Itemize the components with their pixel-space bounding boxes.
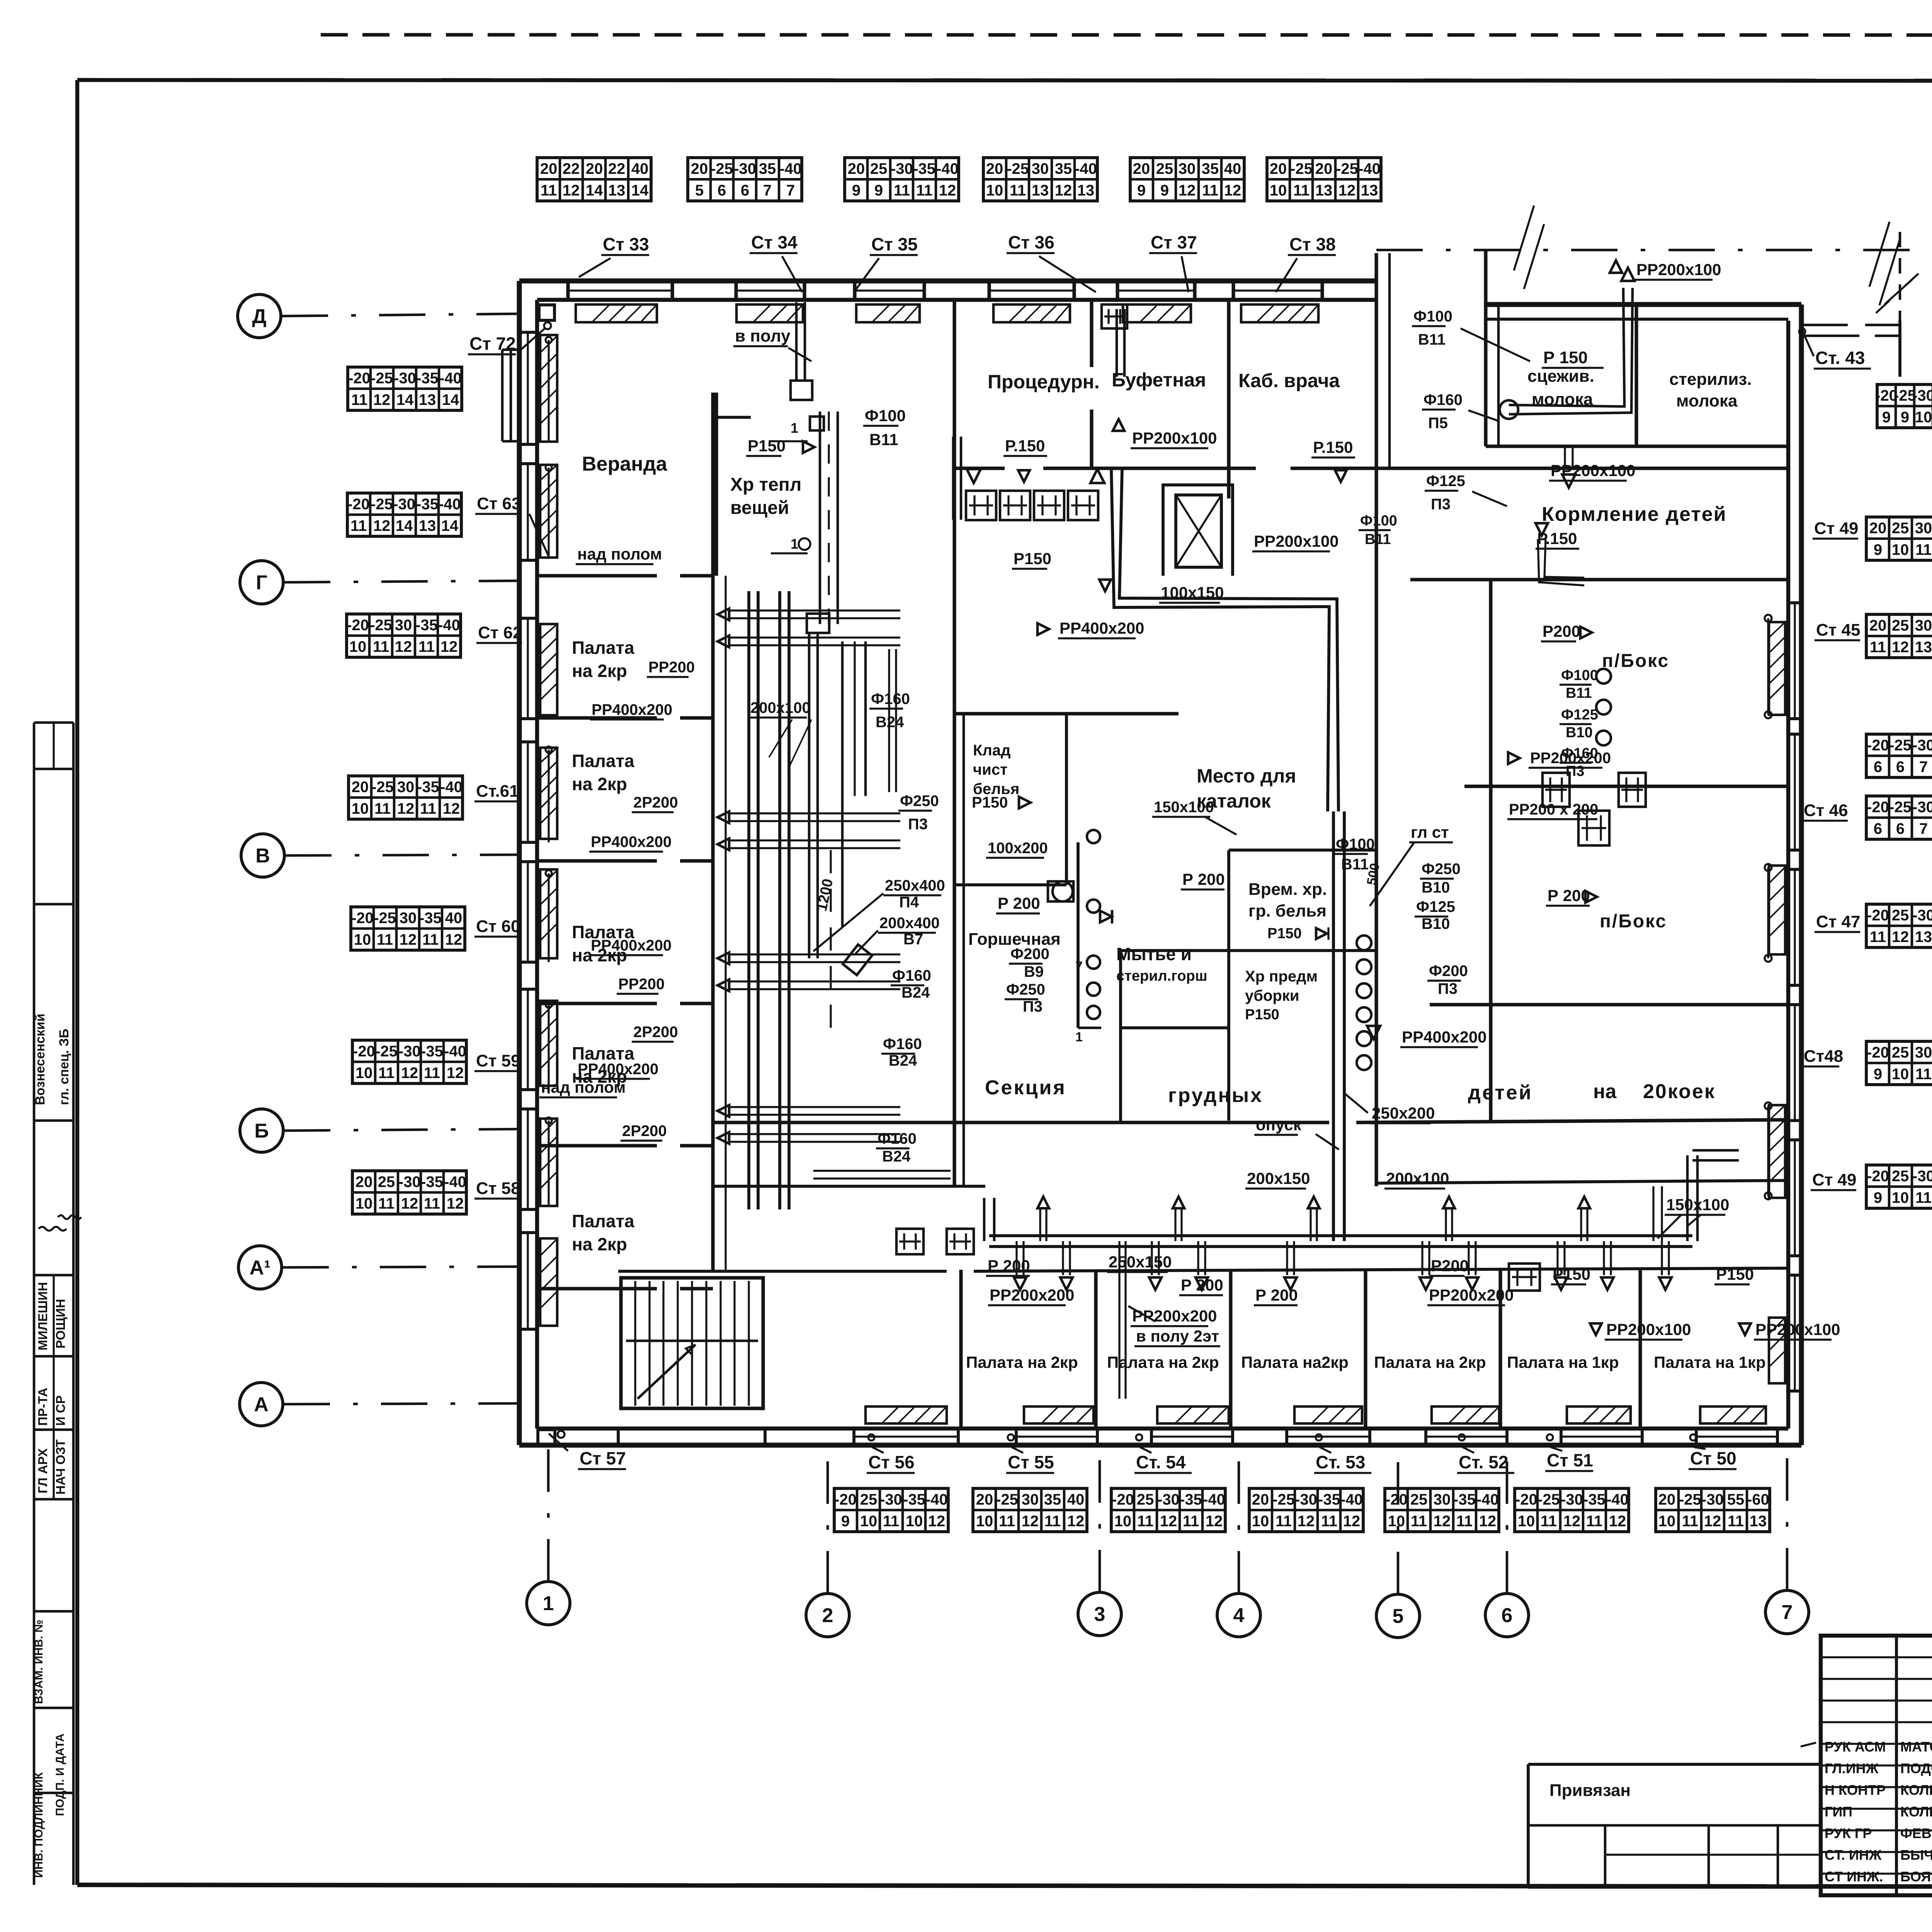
- svg-text:гл. спец. ЗБ: гл. спец. ЗБ: [57, 1029, 71, 1105]
- svg-text:Р150: Р150: [1014, 549, 1051, 568]
- svg-text:Р 200: Р 200: [1182, 870, 1225, 888]
- svg-text:Кормление детей: Кормление детей: [1542, 503, 1727, 526]
- svg-text:Палата на 1кр: Палата на 1кр: [1507, 1353, 1619, 1371]
- svg-text:-40: -40: [1340, 1491, 1363, 1508]
- svg-text:-30: -30: [1912, 907, 1932, 924]
- wing walls: [1486, 302, 1801, 307]
- svg-text:25: 25: [1156, 160, 1173, 177]
- svg-text:Р150: Р150: [972, 794, 1008, 811]
- svg-text:12: 12: [1179, 182, 1196, 199]
- svg-text:-30: -30: [1912, 387, 1932, 404]
- svg-text:9: 9: [841, 1513, 850, 1530]
- svg-text:В24: В24: [882, 1148, 911, 1165]
- svg-text:-25: -25: [1889, 737, 1912, 754]
- svg-text:14: 14: [396, 517, 413, 534]
- svg-text:В24: В24: [876, 714, 904, 731]
- svg-text:-35: -35: [416, 370, 439, 387]
- svg-text:40: 40: [445, 910, 463, 927]
- svg-text:1: 1: [1075, 1030, 1083, 1044]
- svg-text:11: 11: [378, 1195, 395, 1212]
- svg-text:Привязан: Привязан: [1549, 1781, 1631, 1800]
- svg-text:25: 25: [1892, 520, 1909, 537]
- svg-text:-25: -25: [1336, 160, 1358, 177]
- svg-text:Ст 45: Ст 45: [1816, 621, 1861, 639]
- svg-text:ГЛ.ИНЖ: ГЛ.ИНЖ: [1825, 1760, 1879, 1776]
- svg-text:30: 30: [1915, 520, 1932, 537]
- svg-text:10: 10: [1892, 1066, 1909, 1083]
- в полу duct stub: [795, 302, 798, 381]
- svg-text:11: 11: [1137, 1513, 1153, 1530]
- svg-text:-35: -35: [421, 1173, 443, 1190]
- axis 7: [1765, 1590, 1809, 1634]
- svg-text:-30: -30: [394, 370, 416, 387]
- svg-text:13: 13: [419, 517, 436, 534]
- svg-text:25: 25: [860, 1491, 878, 1508]
- svg-text:Палата: Палата: [572, 638, 634, 658]
- svg-text:12: 12: [443, 800, 460, 817]
- svg-text:11: 11: [1044, 1513, 1061, 1530]
- svg-text:-30: -30: [1912, 1168, 1932, 1185]
- svg-text:12: 12: [1892, 639, 1909, 656]
- svg-text:20: 20: [355, 1173, 373, 1190]
- svg-text:30: 30: [1915, 617, 1932, 634]
- svg-text:11: 11: [1586, 1513, 1602, 1530]
- svg-text:10: 10: [355, 1195, 373, 1212]
- svg-text:1: 1: [543, 1592, 554, 1615]
- duct вертикаль процедурная: [952, 437, 955, 520]
- svg-text:Ст 50: Ст 50: [1690, 1448, 1736, 1468]
- svg-text:10: 10: [1658, 1513, 1676, 1530]
- svg-text:Ф160: Ф160: [878, 1130, 917, 1147]
- svg-text:11: 11: [1682, 1513, 1698, 1530]
- svg-text:12: 12: [1479, 1513, 1497, 1530]
- corridor wall left column: [711, 393, 714, 1271]
- svg-text:11: 11: [418, 638, 435, 655]
- svg-text:-20: -20: [1867, 799, 1889, 816]
- svg-text:14: 14: [441, 517, 459, 534]
- svg-text:-40: -40: [1203, 1491, 1225, 1508]
- svg-text:В24: В24: [889, 1052, 917, 1069]
- svg-text:-40: -40: [439, 370, 462, 387]
- svg-text:ГЛ АРХ: ГЛ АРХ: [36, 1448, 50, 1493]
- svg-text:12: 12: [1704, 1513, 1721, 1530]
- svg-text:-35: -35: [903, 1491, 925, 1508]
- svg-text:20: 20: [1869, 617, 1887, 634]
- svg-text:12: 12: [397, 800, 415, 817]
- svg-text:6: 6: [1874, 759, 1882, 776]
- svg-text:12: 12: [445, 931, 463, 948]
- svg-text:250х150: 250х150: [1109, 1253, 1172, 1271]
- svg-text:12: 12: [395, 638, 412, 655]
- svg-text:Ф160: Ф160: [1423, 391, 1463, 408]
- svg-text:-20: -20: [1867, 1168, 1889, 1185]
- svg-text:9: 9: [1874, 1066, 1882, 1083]
- svg-text:-20: -20: [834, 1491, 857, 1508]
- svg-text:35: 35: [1044, 1491, 1061, 1508]
- svg-text:11: 11: [1728, 1513, 1744, 1530]
- svg-text:чист: чист: [973, 761, 1008, 778]
- svg-text:-30: -30: [1912, 737, 1932, 754]
- wing duct: [1509, 288, 1624, 406]
- svg-text:Ст 58: Ст 58: [476, 1179, 520, 1198]
- svg-text:20: 20: [976, 1491, 993, 1508]
- svg-text:А: А: [254, 1393, 269, 1416]
- svg-text:12: 12: [401, 1065, 418, 1082]
- svg-text:30: 30: [1915, 1044, 1932, 1061]
- svg-text:Р150: Р150: [1716, 1265, 1754, 1283]
- svg-text:Ф100: Ф100: [865, 406, 906, 425]
- svg-text:12: 12: [1563, 1513, 1581, 1530]
- svg-text:в полу 2эт: в полу 2эт: [1136, 1327, 1219, 1345]
- svg-text:-35: -35: [1180, 1491, 1202, 1508]
- svg-text:В11: В11: [1365, 531, 1391, 548]
- svg-text:Ф100: Ф100: [1413, 308, 1452, 325]
- svg-text:на 2кр: на 2кр: [572, 661, 627, 681]
- svg-text:20: 20: [986, 160, 1003, 177]
- svg-text:-30: -30: [398, 1173, 421, 1190]
- svg-text:9: 9: [1137, 182, 1146, 199]
- svg-text:Р.150: Р.150: [1537, 529, 1577, 548]
- svg-text:-40: -40: [438, 617, 460, 634]
- svg-text:грудных: грудных: [1168, 1084, 1263, 1107]
- svg-text:7: 7: [1782, 1601, 1793, 1624]
- svg-text:-30: -30: [880, 1491, 902, 1508]
- svg-text:10: 10: [1252, 1513, 1269, 1530]
- svg-text:-30: -30: [1701, 1491, 1724, 1508]
- svg-text:10: 10: [986, 182, 1003, 199]
- svg-text:В10: В10: [1566, 724, 1593, 741]
- svg-text:Врем. хр.: Врем. хр.: [1248, 880, 1327, 899]
- svg-text:Ф250: Ф250: [1006, 981, 1045, 998]
- svg-text:Ф100: Ф100: [1561, 667, 1598, 684]
- top dashed border line: [321, 35, 1932, 35]
- svg-text:13: 13: [608, 182, 626, 199]
- svg-text:РР200: РР200: [618, 976, 665, 993]
- svg-text:Ст 63: Ст 63: [477, 494, 521, 513]
- svg-text:на 2кр: на 2кр: [572, 774, 627, 794]
- svg-text:11: 11: [1411, 1513, 1427, 1530]
- svg-text:11: 11: [894, 182, 910, 199]
- svg-text:П5: П5: [1428, 415, 1448, 432]
- svg-text:12: 12: [1343, 1513, 1361, 1530]
- svg-text:20: 20: [586, 160, 603, 177]
- svg-text:12: 12: [1609, 1513, 1626, 1530]
- svg-text:12: 12: [373, 517, 391, 534]
- svg-text:14: 14: [631, 182, 649, 199]
- svg-text:-25: -25: [371, 779, 394, 796]
- svg-text:Р200: Р200: [1431, 1257, 1469, 1275]
- svg-text:Р150: Р150: [1553, 1265, 1590, 1283]
- svg-text:-35: -35: [417, 779, 439, 796]
- svg-text:уборки: уборки: [1245, 987, 1299, 1004]
- svg-text:22: 22: [608, 160, 626, 177]
- radiators left: [540, 335, 557, 442]
- svg-text:2: 2: [822, 1604, 833, 1627]
- svg-text:6: 6: [1502, 1604, 1513, 1627]
- svg-text:11: 11: [1541, 1513, 1557, 1530]
- svg-text:-20: -20: [1867, 1044, 1889, 1061]
- svg-text:ПОДОЛЬСКИЙ: ПОДОЛЬСКИЙ: [1900, 1760, 1932, 1776]
- svg-text:В11: В11: [1566, 685, 1592, 701]
- svg-text:РР400х200: РР400х200: [1402, 1028, 1487, 1046]
- svg-text:ГИП: ГИП: [1825, 1804, 1852, 1820]
- svg-text:35: 35: [1055, 160, 1072, 177]
- svg-text:Р150: Р150: [1267, 925, 1302, 942]
- svg-text:в полу: в полу: [735, 327, 791, 345]
- svg-text:Место для: Место для: [1197, 765, 1296, 787]
- svg-text:-35: -35: [913, 160, 935, 177]
- axis 1: [527, 1582, 570, 1625]
- svg-text:-30: -30: [891, 160, 913, 177]
- svg-text:Р 200: Р 200: [1255, 1286, 1298, 1304]
- title block: [1821, 1636, 1932, 1895]
- svg-text:Ст48: Ст48: [1804, 1047, 1843, 1066]
- svg-text:Ст. 52: Ст. 52: [1459, 1452, 1508, 1472]
- svg-text:9: 9: [1874, 541, 1882, 558]
- svg-text:200х100: 200х100: [1386, 1169, 1449, 1187]
- svg-text:Каб. врача: Каб. врача: [1238, 370, 1340, 391]
- svg-text:-25: -25: [711, 160, 733, 177]
- h wall y1212: [954, 466, 1005, 470]
- процедурная dividers: [1090, 300, 1093, 367]
- svg-text:РР200х200: РР200х200: [1132, 1307, 1217, 1325]
- svg-text:5: 5: [1393, 1605, 1404, 1628]
- Веранда/Хр тепл divider: [714, 393, 718, 576]
- svg-text:11: 11: [377, 931, 393, 948]
- svg-text:Ф160: Ф160: [892, 967, 931, 984]
- svg-text:6: 6: [1874, 820, 1882, 837]
- svg-text:12: 12: [939, 182, 956, 199]
- svg-text:14: 14: [396, 391, 414, 408]
- outer wall left: [517, 281, 522, 1445]
- svg-text:-40: -40: [440, 779, 463, 796]
- svg-text:40: 40: [631, 160, 649, 177]
- svg-text:-30: -30: [1295, 1491, 1317, 1508]
- svg-text:Вознесенский: Вознесенский: [33, 1014, 48, 1105]
- svg-text:40: 40: [1067, 1491, 1085, 1508]
- svg-text:11: 11: [422, 931, 439, 948]
- axis Д dashed to the right: [1376, 249, 1932, 252]
- svg-text:Палата: Палата: [572, 1211, 634, 1231]
- svg-text:-60: -60: [1747, 1491, 1769, 1508]
- svg-text:-20: -20: [1385, 1491, 1408, 1508]
- svg-text:-35: -35: [419, 910, 442, 927]
- svg-text:Ст 62: Ст 62: [478, 623, 522, 642]
- svg-text:-25: -25: [370, 617, 392, 634]
- svg-text:Н КОНТР: Н КОНТР: [1825, 1782, 1886, 1798]
- svg-text:НАЧ ОЗТ: НАЧ ОЗТ: [53, 1439, 68, 1495]
- svg-text:Р.150: Р.150: [1313, 438, 1353, 456]
- svg-text:13: 13: [1915, 639, 1932, 656]
- svg-text:12: 12: [1206, 1513, 1223, 1530]
- svg-text:-35: -35: [416, 496, 439, 513]
- svg-text:-25: -25: [371, 370, 393, 387]
- svg-text:20: 20: [352, 779, 369, 796]
- svg-text:11: 11: [999, 1513, 1015, 1530]
- svg-text:П4: П4: [899, 894, 919, 911]
- svg-text:вещей: вещей: [730, 498, 789, 518]
- svg-text:-20: -20: [1867, 737, 1889, 754]
- svg-text:СТ. ИНЖ: СТ. ИНЖ: [1825, 1847, 1882, 1863]
- top frame line: [77, 80, 1932, 81]
- svg-text:Р200: Р200: [1543, 622, 1580, 640]
- svg-text:11: 11: [424, 1195, 440, 1212]
- svg-text:11: 11: [350, 517, 367, 534]
- svg-text:Ст 34: Ст 34: [751, 232, 798, 252]
- svg-text:П3: П3: [1023, 998, 1043, 1015]
- svg-text:12: 12: [928, 1513, 946, 1530]
- svg-text:12: 12: [1067, 1513, 1085, 1530]
- палата dividers bottom: [959, 1270, 963, 1429]
- svg-text:7: 7: [1919, 759, 1928, 776]
- svg-text:200х150: 200х150: [1247, 1169, 1310, 1187]
- svg-text:25: 25: [1892, 907, 1909, 924]
- svg-text:Ст 59: Ст 59: [476, 1051, 520, 1070]
- svg-text:Р 200: Р 200: [998, 894, 1040, 912]
- svg-text:ПОДП. И ДАТА: ПОДП. И ДАТА: [54, 1733, 66, 1816]
- svg-text:Р150: Р150: [1245, 1007, 1279, 1023]
- svg-text:20: 20: [1658, 1491, 1676, 1508]
- svg-text:4: 4: [1233, 1604, 1245, 1627]
- central trunk vertical: [1332, 811, 1335, 1241]
- svg-text:13: 13: [1315, 182, 1333, 199]
- balcony lines outside left wall: [501, 350, 504, 441]
- svg-text:6: 6: [741, 182, 749, 199]
- svg-text:-30: -30: [734, 160, 756, 177]
- svg-text:11: 11: [1202, 182, 1218, 199]
- svg-text:В10: В10: [1422, 879, 1450, 896]
- axis Б: [240, 1109, 283, 1152]
- svg-text:7: 7: [786, 182, 795, 199]
- svg-text:Ст 46: Ст 46: [1804, 801, 1848, 820]
- svg-text:-25: -25: [375, 1043, 398, 1060]
- svg-text:сцежив.: сцежив.: [1527, 367, 1594, 386]
- svg-text:-20: -20: [347, 496, 370, 513]
- outer wall right: [1799, 304, 1804, 1445]
- svg-text:12: 12: [1298, 1513, 1315, 1530]
- svg-text:12: 12: [400, 931, 417, 948]
- svg-text:20: 20: [1133, 160, 1150, 177]
- radiators right: [1769, 622, 1785, 715]
- svg-text:Палата: Палата: [572, 751, 634, 771]
- svg-text:6: 6: [1896, 759, 1905, 776]
- section walls: [713, 1121, 1329, 1124]
- svg-text:Ст 51: Ст 51: [1547, 1450, 1593, 1470]
- svg-text:30: 30: [1032, 160, 1049, 177]
- svg-text:Ст.61: Ст.61: [476, 782, 519, 801]
- svg-text:20: 20: [691, 160, 708, 177]
- svg-text:11: 11: [883, 1513, 899, 1530]
- svg-text:П3: П3: [1431, 496, 1451, 513]
- svg-text:12: 12: [1022, 1513, 1039, 1530]
- svg-text:Ст 33: Ст 33: [603, 234, 649, 254]
- svg-text:Палата на 2кр: Палата на 2кр: [1107, 1353, 1219, 1371]
- outer wall bottom: [519, 1443, 1801, 1448]
- svg-text:25: 25: [1137, 1491, 1154, 1508]
- svg-text:10: 10: [1892, 1189, 1909, 1206]
- svg-text:п/Бокс: п/Бокс: [1602, 651, 1669, 671]
- svg-text:РР200х100: РР200х100: [1606, 1320, 1691, 1338]
- svg-text:11: 11: [1321, 1513, 1337, 1530]
- svg-text:Ст 47: Ст 47: [1816, 912, 1861, 931]
- svg-text:35: 35: [759, 160, 776, 177]
- bottom frame line: [77, 1885, 1932, 1887]
- svg-text:БЫЧКОВА: БЫЧКОВА: [1900, 1847, 1932, 1863]
- svg-text:Ф250: Ф250: [1422, 861, 1461, 878]
- svg-text:-35: -35: [421, 1043, 443, 1060]
- wall stack risers left: [548, 340, 549, 440]
- svg-text:30: 30: [1434, 1491, 1451, 1508]
- svg-text:БОЯРСКАЯ: БОЯРСКАЯ: [1900, 1869, 1932, 1884]
- svg-text:11: 11: [1870, 639, 1886, 656]
- svg-text:9: 9: [1901, 409, 1909, 426]
- svg-text:Клад: Клад: [973, 742, 1010, 759]
- svg-text:П3: П3: [908, 816, 928, 833]
- svg-text:КОЛЬЦОВА: КОЛЬЦОВА: [1900, 1804, 1932, 1820]
- svg-text:РР200х100: РР200х100: [1551, 461, 1636, 480]
- svg-text:Ст 49: Ст 49: [1814, 519, 1859, 538]
- svg-text:11: 11: [1293, 182, 1310, 199]
- svg-text:-20: -20: [348, 370, 371, 387]
- svg-text:-30: -30: [398, 1043, 421, 1060]
- svg-text:Ст 57: Ст 57: [580, 1448, 626, 1468]
- svg-text:РР200х200: РР200х200: [990, 1286, 1075, 1304]
- svg-text:П3: П3: [1438, 980, 1458, 997]
- axis В: [241, 834, 284, 877]
- svg-text:20: 20: [1315, 160, 1333, 177]
- svg-text:В24: В24: [901, 984, 930, 1001]
- svg-text:Ст 72: Ст 72: [469, 333, 516, 354]
- axis 2: [806, 1594, 849, 1637]
- svg-text:РОЩИН: РОЩИН: [53, 1299, 68, 1349]
- svg-text:-25: -25: [371, 496, 393, 513]
- svg-text:9: 9: [1160, 182, 1169, 199]
- svg-text:-25: -25: [1272, 1491, 1295, 1508]
- outer wall top: [519, 279, 1376, 284]
- axis 5: [1376, 1594, 1420, 1638]
- svg-text:-40: -40: [1476, 1491, 1499, 1508]
- svg-text:13: 13: [1077, 182, 1095, 199]
- svg-text:6: 6: [1896, 820, 1905, 837]
- svg-text:11: 11: [378, 1065, 395, 1082]
- svg-text:10: 10: [1518, 1513, 1535, 1530]
- svg-text:ПР-ТА: ПР-ТА: [36, 1388, 50, 1426]
- svg-text:ВЗАМ. ИНВ. №: ВЗАМ. ИНВ. №: [32, 1620, 45, 1704]
- svg-text:РР400х200: РР400х200: [591, 937, 672, 954]
- svg-text:Г: Г: [256, 571, 267, 594]
- svg-text:стерил.горш: стерил.горш: [1116, 968, 1207, 984]
- tables right column: [1877, 384, 1932, 428]
- middle block walls: [954, 712, 1179, 715]
- svg-text:-20: -20: [351, 910, 374, 927]
- svg-text:11: 11: [420, 800, 436, 817]
- бокс walls: [1464, 784, 1788, 788]
- svg-text:Хр предм: Хр предм: [1245, 968, 1318, 985]
- svg-text:20: 20: [1869, 520, 1887, 537]
- stack circles: [1357, 935, 1371, 950]
- axis А1: [238, 1246, 282, 1289]
- svg-text:10: 10: [976, 1513, 993, 1530]
- svg-text:12: 12: [1434, 1513, 1451, 1530]
- svg-text:-25: -25: [1889, 799, 1912, 816]
- tables bottom row: [834, 1488, 948, 1532]
- svg-text:11: 11: [916, 182, 932, 199]
- svg-text:11: 11: [1183, 1513, 1199, 1530]
- fitting row处 процедурная: [966, 491, 996, 520]
- svg-text:-40: -40: [925, 1491, 948, 1508]
- stairs: [621, 1278, 763, 1408]
- svg-text:Ф160: Ф160: [1561, 745, 1598, 762]
